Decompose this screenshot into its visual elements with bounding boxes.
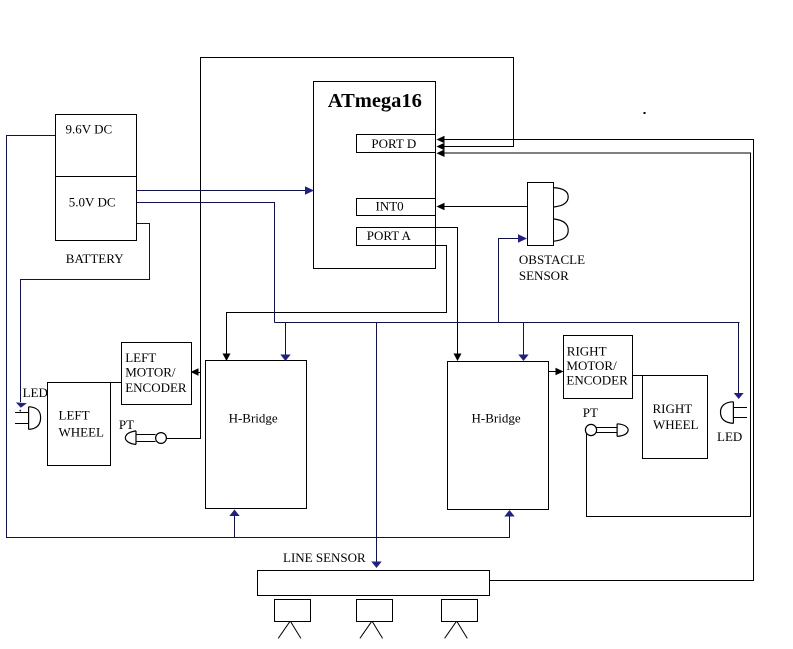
arrowhead left H-Bridge bottom — [229, 510, 239, 517]
left PT open arrowhead — [125, 431, 136, 445]
svg-text:BATTERY: BATTERY — [66, 251, 124, 266]
svg-text:ATmega16: ATmega16 — [328, 90, 422, 112]
arrowhead PORT D 2 — [437, 143, 445, 151]
svg-text:MOTOR/: MOTOR/ — [125, 365, 176, 380]
wire PORT A bottom to left H-Bridge — [227, 246, 447, 357]
obstacle sensor lens bump 2 — [554, 219, 568, 241]
svg-text:H-Bridge: H-Bridge — [472, 411, 521, 426]
line sensor element 3 box — [442, 600, 478, 622]
arrowhead left LED — [16, 402, 27, 407]
left LED body — [29, 407, 41, 430]
wire PORT A top to right H-Bridge — [436, 228, 458, 357]
line sensor element 2 box — [357, 600, 393, 622]
line sensor element 2 legs — [360, 622, 383, 639]
arrowhead left H-Bridge top navy — [280, 355, 290, 362]
PORT D box — [357, 135, 436, 153]
svg-text:LEFT: LEFT — [59, 408, 90, 423]
wire INT0 to obstacle sensor — [441, 206, 528, 208]
svg-text:SENSOR: SENSOR — [519, 268, 569, 283]
H-Bridge left box — [206, 361, 307, 509]
wire PORT D line3 to right PT — [441, 153, 751, 517]
svg-text:ENCODER: ENCODER — [125, 380, 187, 395]
arrowhead right H-Bridge top navy — [518, 355, 528, 362]
arrowhead PORT D 3 — [437, 149, 445, 157]
wire right motor/encoder to right wheel — [633, 375, 643, 377]
battery box — [56, 115, 137, 241]
svg-text:MOTOR/: MOTOR/ — [566, 358, 617, 373]
right LED leads — [733, 408, 747, 418]
wire H-Bridge right to right motor/encoder — [549, 371, 558, 373]
arrowhead right LED — [734, 393, 744, 399]
wire PORT D to left motor/encoder (top loop) — [196, 58, 514, 373]
power bus horizontal line B — [275, 322, 740, 324]
wire battery left to H-Bridge bottoms — [7, 136, 510, 538]
PORT A box — [357, 228, 436, 246]
ATmega16 box U1 — [314, 82, 436, 269]
wire bus to right LED — [738, 323, 741, 394]
arrowhead ATmega power input — [305, 186, 314, 194]
svg-text:PORT A: PORT A — [367, 228, 412, 243]
wire top-loop vertical lower segment to left PT — [166, 147, 200, 439]
left wheel box — [48, 383, 111, 466]
right PT open arrowhead — [617, 424, 628, 437]
obstacle sensor lens bump 1 — [554, 188, 568, 207]
arrowhead PORT D 1 — [437, 136, 445, 144]
wire bus to right H-Bridge top — [523, 323, 525, 357]
INT0 box — [357, 199, 436, 216]
arrowhead right H-Bridge bottom — [504, 510, 514, 517]
svg-text:PORT D: PORT D — [371, 136, 416, 151]
svg-text:PT: PT — [119, 417, 134, 432]
svg-text:ENCODER: ENCODER — [566, 372, 628, 387]
svg-text:LED: LED — [23, 385, 48, 400]
right PT circle — [585, 424, 596, 435]
left LED leads — [15, 413, 29, 424]
svg-text:5.0V DC: 5.0V DC — [69, 194, 116, 209]
arrowhead right H-Bridge top black — [454, 354, 462, 362]
wire PORT D line1 to line sensor right — [441, 140, 754, 581]
wire bus to line sensor — [376, 323, 378, 563]
svg-text:OBSTACLE: OBSTACLE — [519, 252, 585, 267]
dot under left LED arrow — [20, 410, 22, 412]
svg-text:LEFT: LEFT — [125, 350, 156, 365]
svg-text:WHEEL: WHEEL — [59, 424, 105, 439]
wire bus to left H-Bridge top — [285, 323, 287, 357]
arrowhead right motor/encoder — [556, 368, 564, 376]
wire left wheel to left motor/encoder — [111, 382, 122, 384]
right LED body — [721, 402, 734, 424]
svg-text:LINE SENSOR: LINE SENSOR — [283, 550, 366, 565]
obstacle sensor box — [528, 183, 554, 246]
left PT circle — [156, 433, 167, 444]
arrowhead obstacle sensor input — [518, 234, 527, 242]
svg-text:9.6V DC: 9.6V DC — [66, 121, 113, 136]
line sensor box — [258, 571, 490, 596]
arrowhead left H-Bridge top black — [223, 354, 231, 362]
H-Bridge right box — [448, 362, 549, 510]
line sensor element 1 box — [275, 600, 311, 622]
arrowhead INT0 — [437, 203, 445, 211]
line sensor element 1 legs — [278, 622, 301, 639]
wire branch up to left H-Bridge bottom — [234, 515, 236, 538]
svg-text:H-Bridge: H-Bridge — [229, 411, 278, 426]
svg-text:PT: PT — [583, 405, 598, 420]
right PT arrow shaft — [596, 428, 617, 433]
arrowhead line sensor top — [371, 562, 381, 569]
battery divider — [56, 176, 137, 178]
svg-text:WHEEL: WHEEL — [653, 417, 699, 432]
svg-text:INT0: INT0 — [376, 198, 404, 213]
wire battery 5V down to power bus — [137, 203, 275, 323]
right wheel box — [643, 376, 708, 459]
arrowhead left motor/encoder — [191, 368, 199, 376]
left PT arrow shaft — [136, 435, 156, 442]
right motor/encoder box — [564, 336, 633, 399]
svg-text:LED: LED — [717, 429, 742, 444]
wire battery 5V to ATmega — [137, 190, 310, 192]
line sensor element 3 legs — [445, 622, 468, 639]
wire battery 9.6V to left LED — [21, 224, 150, 403]
left motor/encoder box — [122, 343, 192, 405]
stray dot — [644, 112, 646, 114]
wire bus up to obstacle sensor — [499, 239, 522, 323]
svg-text:RIGHT: RIGHT — [653, 401, 693, 416]
svg-text:RIGHT: RIGHT — [567, 344, 607, 359]
